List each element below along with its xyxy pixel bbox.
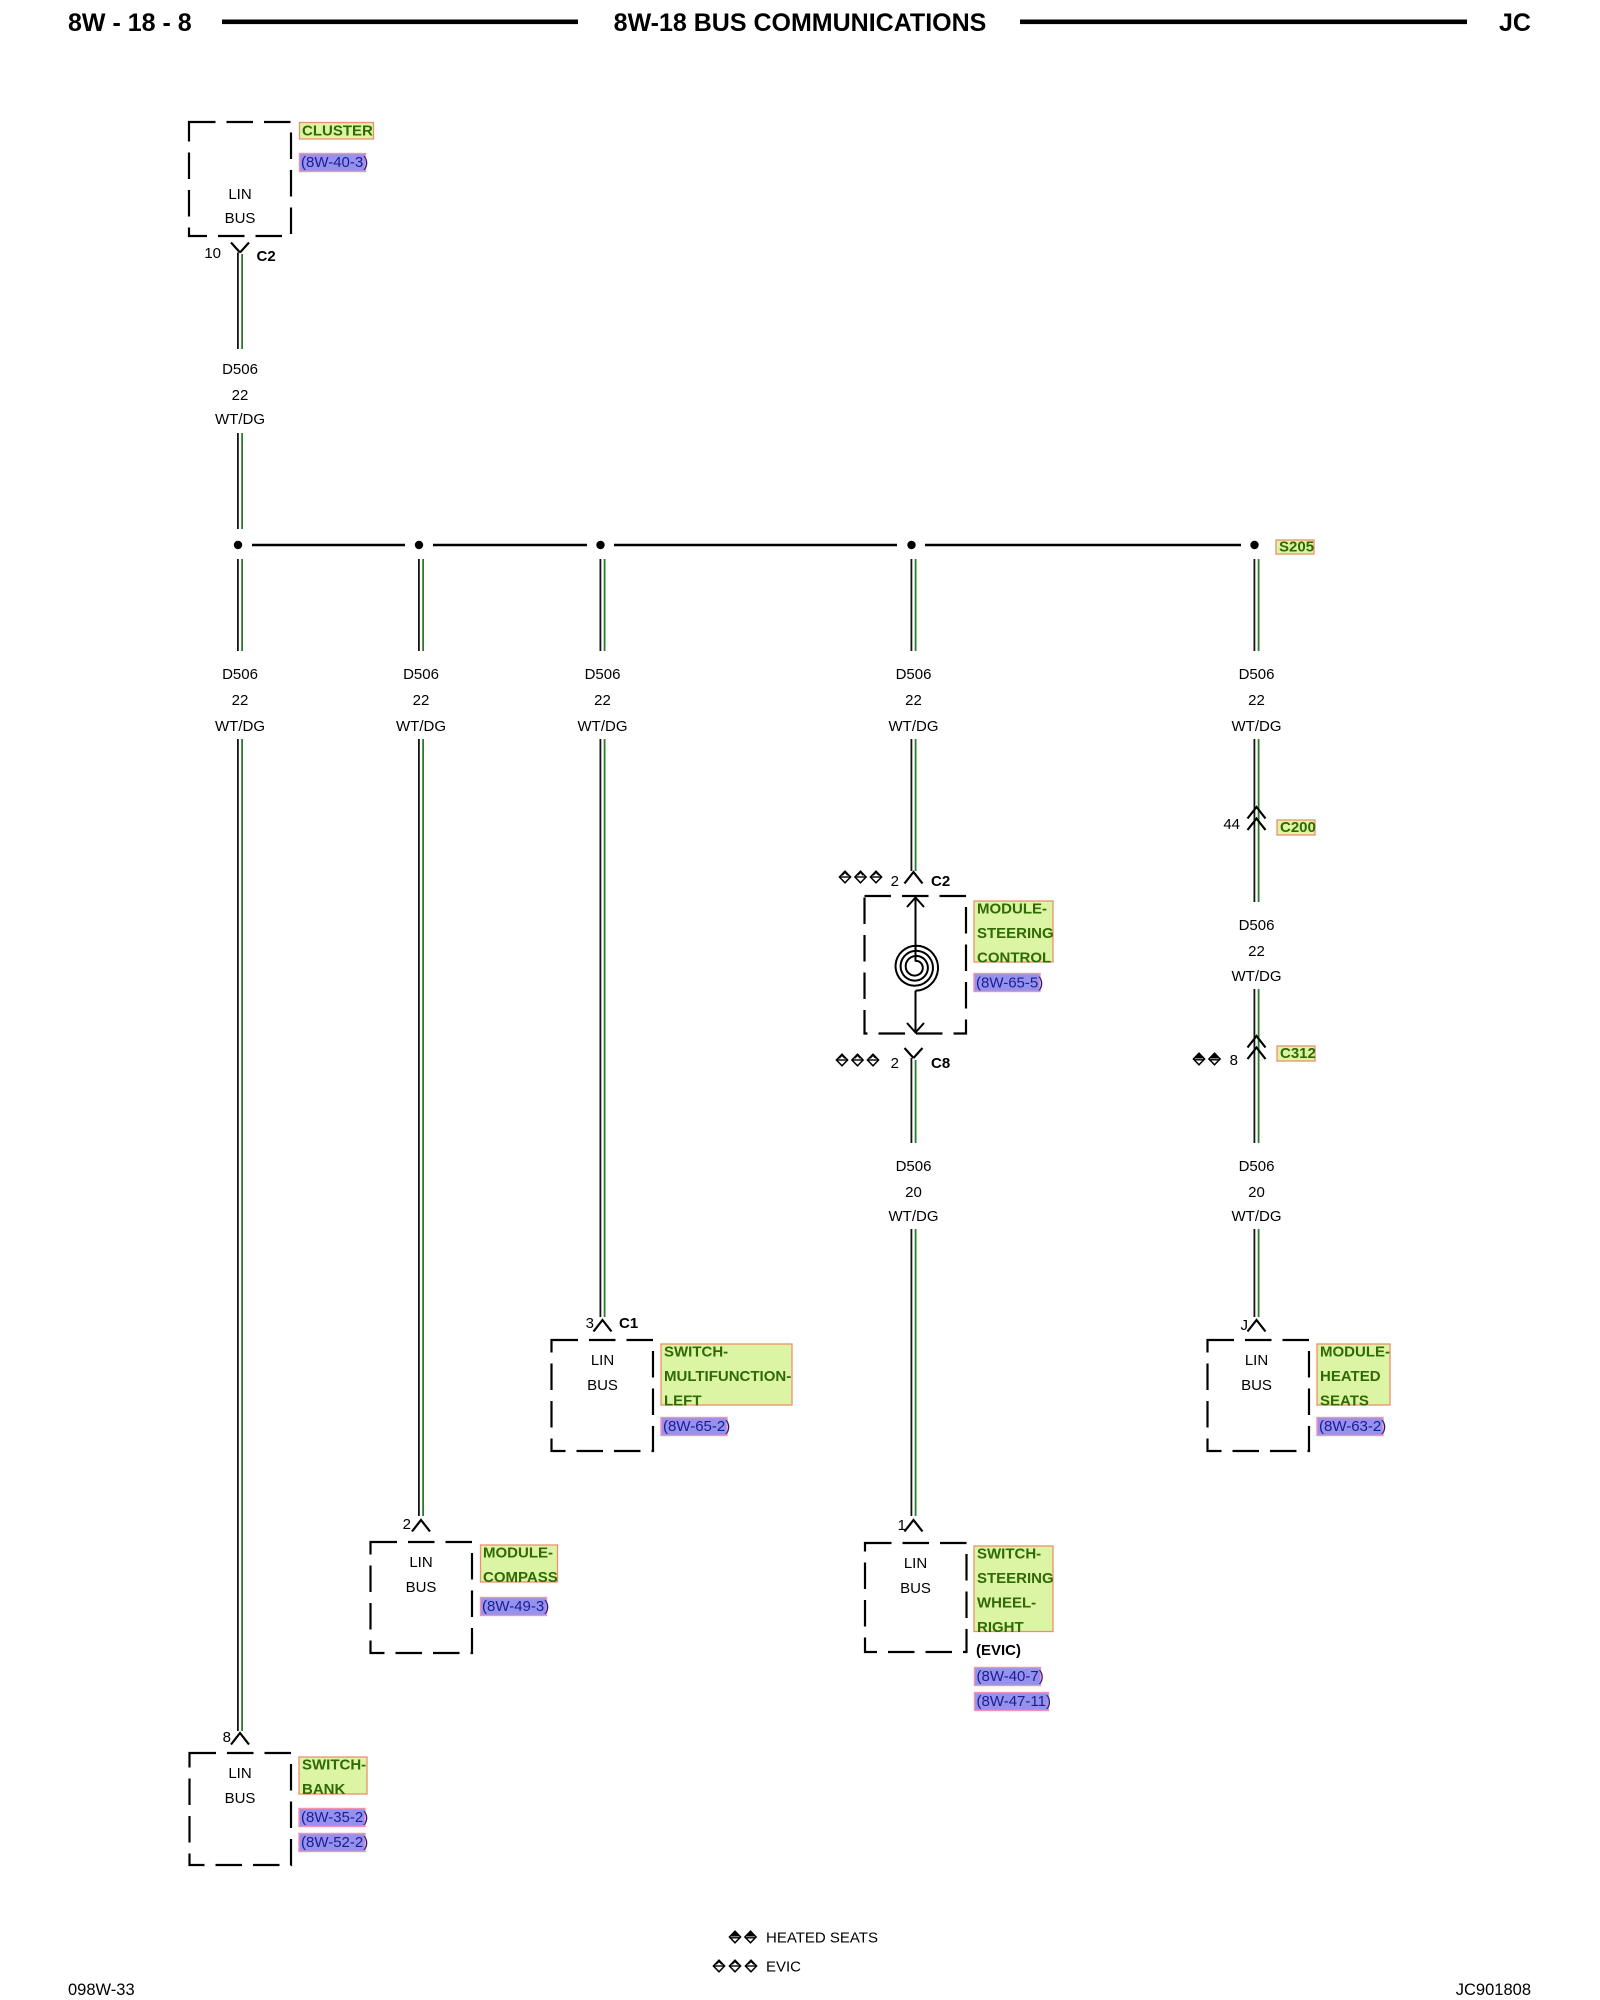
svg-text:BUS: BUS: [225, 210, 256, 227]
svg-text:BUS: BUS: [406, 1579, 437, 1596]
module SWITCH-BANK dashed box: [190, 1753, 292, 1865]
svg-text:22: 22: [594, 692, 611, 709]
footnote legend evic: [713, 1959, 801, 1976]
svg-text:WT/DG: WT/DG: [215, 718, 265, 735]
splice label S205: [1276, 539, 1314, 556]
svg-text:D506: D506: [896, 666, 932, 683]
splice junction dot col1: [234, 541, 242, 549]
connector C2 cluster pin 10: [204, 243, 275, 266]
label MODULE-COMPASS: [481, 1545, 558, 1587]
svg-text:HEATED: HEATED: [1320, 1368, 1381, 1385]
svg-text:JC901808: JC901808: [1456, 1981, 1531, 1999]
label EVIC: [976, 1642, 1021, 1659]
svg-text:D506: D506: [585, 666, 621, 683]
svg-text:SWITCH-: SWITCH-: [977, 1546, 1041, 1563]
module STEERING CONTROL dashed box: [865, 896, 967, 1034]
connector C2 steering control pin 2: [891, 872, 951, 890]
svg-text:MODULE-: MODULE-: [1320, 1344, 1390, 1361]
svg-text:(8W-49-3): (8W-49-3): [482, 1598, 549, 1615]
svg-text:(8W-65-2): (8W-65-2): [663, 1418, 730, 1435]
svg-text:44: 44: [1223, 816, 1240, 833]
connector heated seats pin J: [1241, 1317, 1266, 1334]
svg-text:C8: C8: [931, 1055, 950, 1072]
svg-text:BUS: BUS: [1241, 1377, 1272, 1394]
label reference 8W-65-2: [661, 1418, 730, 1436]
svg-text:LIN: LIN: [591, 1352, 614, 1369]
svg-text:SWITCH-: SWITCH-: [302, 1757, 366, 1774]
wire D506 col2 seg a: [419, 559, 423, 651]
wire D506 col5 seg c: [1254, 989, 1258, 1143]
connector compass pin 2: [403, 1516, 430, 1533]
svg-text:2: 2: [891, 1055, 899, 1072]
svg-text:D506: D506: [1239, 917, 1275, 934]
wire D506 col4 seg d: [911, 1229, 915, 1516]
svg-text:SEATS: SEATS: [1320, 1393, 1369, 1410]
wire D506 col1 seg d: [238, 739, 242, 1731]
wire label D506 22 WT/DG col1 top: [215, 361, 265, 428]
svg-text:8: 8: [223, 1729, 231, 1746]
label MODULE-STEERING CONTROL: [974, 901, 1054, 967]
svg-text:22: 22: [1248, 943, 1265, 960]
svg-text:LIN: LIN: [904, 1555, 927, 1572]
splice junction dot col2: [415, 541, 423, 549]
wire D506 col1 seg b: [238, 433, 242, 529]
connector label C200: [1277, 819, 1316, 836]
svg-text:C2: C2: [931, 873, 950, 890]
connector C8 steering control pin 2: [891, 1048, 951, 1072]
svg-text:WHEEL-: WHEEL-: [977, 1595, 1036, 1612]
svg-text:D506: D506: [1239, 1158, 1275, 1175]
svg-text:D506: D506: [222, 666, 258, 683]
svg-text:WT/DG: WT/DG: [215, 411, 265, 428]
wire D506 col2 seg b: [419, 739, 423, 1516]
svg-text:COMPASS: COMPASS: [483, 1569, 558, 1586]
svg-text:STEERING: STEERING: [977, 1570, 1054, 1587]
svg-text:SWITCH-: SWITCH-: [664, 1344, 728, 1361]
svg-text:(8W-35-2): (8W-35-2): [301, 1809, 368, 1826]
svg-text:LIN: LIN: [1245, 1352, 1268, 1369]
svg-text:D506: D506: [896, 1158, 932, 1175]
wire label D506 20 WT/DG col5 lower: [1232, 1158, 1282, 1225]
module COMPASS dashed box: [371, 1542, 473, 1653]
splice junction dot col4: [907, 541, 915, 549]
svg-text:(8W-52-2): (8W-52-2): [301, 1834, 368, 1851]
label reference 8W-35-2: [299, 1809, 368, 1827]
svg-text:BANK: BANK: [302, 1781, 345, 1798]
label CLUSTER: [300, 123, 374, 140]
wire D506 col3 seg b: [600, 739, 604, 1317]
svg-text:CONTROL: CONTROL: [977, 950, 1051, 967]
svg-text:EVIC: EVIC: [766, 1959, 801, 1976]
header rule left: [222, 20, 578, 25]
wire D506 col5 seg b: [1254, 739, 1258, 902]
label reference 8W-47-11: [975, 1693, 1051, 1711]
connector C200 pin 44 inline: [1223, 807, 1265, 833]
label SWITCH-BANK: [299, 1757, 367, 1799]
svg-text:(8W-40-7): (8W-40-7): [977, 1668, 1044, 1685]
svg-text:WT/DG: WT/DG: [889, 718, 939, 735]
wire label D506 22 WT/DG col5 upper: [1232, 666, 1282, 735]
header right code JC: [1499, 9, 1531, 37]
svg-text:WT/DG: WT/DG: [1232, 968, 1282, 985]
svg-text:(EVIC): (EVIC): [976, 1642, 1021, 1659]
connector C312 pin 8 inline: [1230, 1036, 1266, 1069]
wire D506 col5 seg d: [1254, 1229, 1258, 1317]
label reference 8W-65-5: [974, 974, 1043, 992]
wire label D506 22 WT/DG col4: [889, 666, 939, 735]
connector C1 multifunction pin 3: [586, 1315, 639, 1332]
svg-text:(8W-40-3): (8W-40-3): [301, 154, 368, 171]
svg-text:WT/DG: WT/DG: [889, 1208, 939, 1225]
footnote diamonds EVIC at C8: [836, 1054, 878, 1066]
svg-text:8: 8: [1230, 1052, 1238, 1069]
footer sheet number left: [68, 1981, 135, 1999]
wire D506 col4 seg b: [911, 739, 915, 871]
footnote diamonds EVIC at C2: [839, 871, 881, 883]
svg-text:WT/DG: WT/DG: [1232, 718, 1282, 735]
wire label D506 22 WT/DG col2: [396, 666, 446, 735]
svg-text:WT/DG: WT/DG: [578, 718, 628, 735]
svg-text:22: 22: [413, 692, 430, 709]
svg-text:CLUSTER: CLUSTER: [302, 123, 373, 140]
module CLUSTER dashed box: [189, 122, 291, 236]
wire D506 col3 seg a: [600, 559, 604, 651]
svg-text:3: 3: [586, 1315, 594, 1332]
footnote legend heated seats: [729, 1930, 878, 1947]
svg-text:D506: D506: [403, 666, 439, 683]
svg-text:C312: C312: [1280, 1045, 1316, 1062]
wire D506 col5 seg a: [1254, 559, 1258, 651]
svg-text:22: 22: [232, 387, 249, 404]
svg-text:STEERING: STEERING: [977, 925, 1054, 942]
svg-text:098W-33: 098W-33: [68, 1981, 135, 1999]
svg-text:D506: D506: [1239, 666, 1275, 683]
label MODULE-HEATED SEATS: [1317, 1344, 1390, 1410]
module MULTIFUNCTION dashed box: [552, 1340, 654, 1451]
svg-text:C2: C2: [257, 248, 276, 265]
svg-text:10: 10: [204, 245, 221, 262]
label reference 8W-40-7: [975, 1668, 1044, 1686]
connector steering wheel switch pin 1: [898, 1517, 923, 1534]
svg-text:(8W-65-5): (8W-65-5): [976, 975, 1043, 992]
footnote diamonds HEATED SEATS at C312: [1193, 1053, 1220, 1065]
svg-text:(8W-63-2): (8W-63-2): [1319, 1418, 1386, 1435]
label reference 8W-63-2: [1317, 1418, 1386, 1436]
module HEATED SEATS dashed box: [1208, 1340, 1310, 1451]
connector label C312: [1277, 1045, 1316, 1062]
clockspring symbol: [896, 898, 938, 1033]
svg-text:22: 22: [905, 692, 922, 709]
svg-text:C200: C200: [1280, 819, 1316, 836]
svg-text:2: 2: [403, 1516, 411, 1533]
svg-text:J: J: [1241, 1317, 1249, 1334]
svg-text:(8W-47-11): (8W-47-11): [977, 1693, 1051, 1710]
header rule right: [1020, 20, 1467, 25]
splice junction dot col3: [596, 541, 604, 549]
svg-text:8W - 18 - 8: 8W - 18 - 8: [68, 9, 192, 37]
bus wire horizontal S205: [252, 544, 1241, 547]
wire label D506 22 WT/DG col3: [578, 666, 628, 735]
svg-text:20: 20: [1248, 1184, 1265, 1201]
svg-text:LIN: LIN: [409, 1554, 432, 1571]
svg-text:1: 1: [898, 1517, 906, 1534]
footer sheet code right: [1456, 1981, 1531, 1999]
svg-text:BUS: BUS: [587, 1377, 618, 1394]
svg-text:MULTIFUNCTION-: MULTIFUNCTION-: [664, 1368, 791, 1385]
wire label D506 20 WT/DG col4: [889, 1158, 939, 1225]
label SWITCH-MULTIFUNCTION-LEFT: [661, 1344, 792, 1410]
svg-text:JC: JC: [1499, 9, 1531, 37]
splice junction dot col5: [1250, 541, 1258, 549]
wire D506 col1 seg a: [238, 253, 242, 350]
svg-text:D506: D506: [222, 361, 258, 378]
svg-text:S205: S205: [1279, 539, 1314, 556]
svg-text:WT/DG: WT/DG: [1232, 1208, 1282, 1225]
label SWITCH-STEERING WHEEL-RIGHT: [974, 1546, 1054, 1637]
svg-text:LIN: LIN: [228, 186, 251, 203]
header left page number: [68, 9, 192, 37]
svg-text:8W-18 BUS COMMUNICATIONS: 8W-18 BUS COMMUNICATIONS: [614, 9, 987, 37]
svg-text:BUS: BUS: [900, 1580, 931, 1597]
svg-text:2: 2: [891, 873, 899, 890]
svg-text:MODULE-: MODULE-: [483, 1545, 553, 1562]
svg-text:22: 22: [232, 692, 249, 709]
svg-text:LEFT: LEFT: [664, 1393, 702, 1410]
wire D506 col4 seg a: [911, 559, 915, 651]
module STEERING WHEEL RIGHT dashed box: [865, 1543, 967, 1652]
label reference 8W-40-3: [300, 154, 369, 172]
connector switch bank pin 8: [223, 1729, 249, 1746]
header title: [614, 9, 987, 37]
label reference 8W-52-2: [299, 1834, 368, 1852]
svg-text:WT/DG: WT/DG: [396, 718, 446, 735]
label reference 8W-49-3: [481, 1598, 550, 1616]
svg-text:HEATED SEATS: HEATED SEATS: [766, 1930, 878, 1947]
svg-text:C1: C1: [619, 1315, 638, 1332]
wire D506 col4 seg c: [911, 1058, 915, 1143]
svg-text:BUS: BUS: [225, 1790, 256, 1807]
svg-text:LIN: LIN: [228, 1765, 251, 1782]
wire D506 col1 seg c: [238, 559, 242, 651]
svg-text:RIGHT: RIGHT: [977, 1619, 1024, 1636]
svg-text:20: 20: [905, 1184, 922, 1201]
svg-text:MODULE-: MODULE-: [977, 901, 1047, 918]
wire label D506 22 WT/DG col1 lower: [215, 666, 265, 735]
svg-text:22: 22: [1248, 692, 1265, 709]
wire label D506 22 WT/DG col5 middle: [1232, 917, 1282, 985]
